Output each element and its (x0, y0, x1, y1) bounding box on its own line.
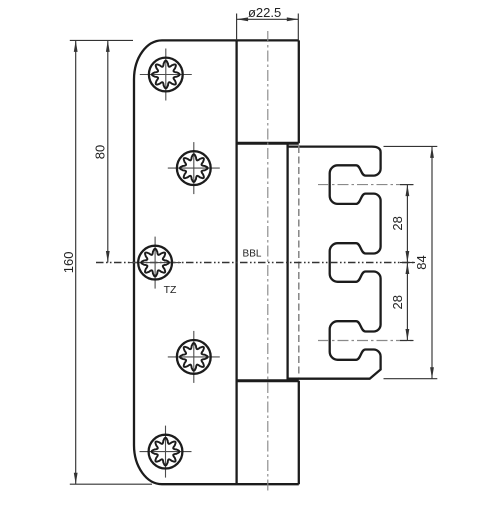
dimension 160 extension top (70, 39, 133, 41)
top knuckle bottom band (237, 142, 299, 145)
dimension 84 extension top (384, 145, 438, 147)
dimension 160 line (75, 40, 77, 484)
hinge leaf outline (134, 40, 299, 484)
svg-text:ø22.5: ø22.5 (248, 5, 281, 20)
center leaf strip right edge (286, 145, 288, 381)
frame anchor comb outline (288, 147, 381, 379)
dimension 84 extension bottom (384, 378, 438, 380)
screw hole 1 (140, 49, 192, 101)
dimension 28 tick lower (400, 340, 414, 342)
dimension 80 arrows (106, 40, 110, 52)
barrel left edge (235, 40, 237, 484)
dimension 84 line (431, 146, 433, 378)
screw hole 3 (TZ) (129, 237, 181, 289)
upper slot centerline (318, 184, 413, 186)
bottom knuckle right edge (298, 381, 300, 484)
svg-text:160: 160 (61, 252, 76, 274)
dimension 28 pair line (406, 185, 408, 341)
svg-text:28: 28 (390, 216, 405, 230)
svg-text:TZ: TZ (164, 284, 177, 296)
dimension 22.5 arrows (237, 17, 249, 21)
hidden knuckle edge (dashed) (298, 146, 300, 378)
dimension 84 arrows (430, 146, 434, 158)
main horizontal axis centerline (96, 262, 414, 264)
dimension 160 arrows (74, 40, 78, 52)
dimension 28 tick middle (400, 262, 415, 264)
dimension 22.5 line (237, 18, 299, 20)
dimension 28 arrows (406, 185, 410, 197)
screw hole 4 (168, 331, 220, 383)
dimension 160 extension bottom (70, 483, 152, 485)
dimension 80 line (107, 40, 109, 262)
svg-text:BBL: BBL (243, 248, 262, 259)
barrel vertical centerline (267, 31, 269, 492)
bottom knuckle top band (237, 379, 299, 382)
screw hole 5 (140, 426, 192, 478)
dimension 28 tick upper (400, 184, 414, 186)
svg-text:84: 84 (414, 255, 429, 269)
lower slot centerline (318, 340, 413, 342)
top knuckle right edge (298, 40, 300, 143)
svg-text:80: 80 (93, 145, 108, 159)
svg-text:28: 28 (390, 295, 405, 309)
dimension 22.5 extension left (236, 14, 238, 41)
dimension 22.5 extension right (297, 14, 299, 41)
screw hole 2 (168, 142, 220, 194)
